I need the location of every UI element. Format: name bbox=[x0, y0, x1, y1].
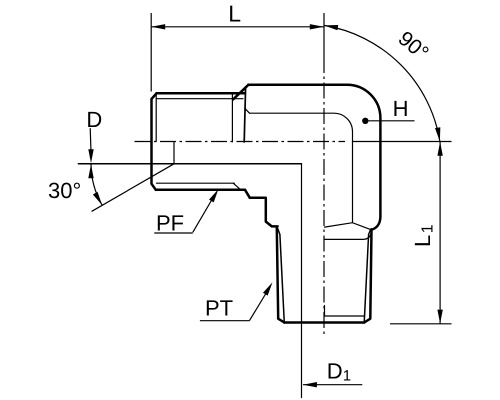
arrow 30deg arc end bbox=[93, 192, 105, 207]
gauge projection vertical bbox=[173, 142, 175, 164]
hex facet notch bbox=[245, 108, 250, 113]
L1 extension line bottom bbox=[390, 323, 452, 325]
PT label underline bbox=[200, 320, 250, 322]
L dimension line bbox=[151, 26, 324, 28]
PT bottom chamfer boundary line bbox=[325, 306, 365, 317]
svg-text:PF: PF bbox=[156, 210, 184, 235]
arrow PT leader bbox=[263, 281, 275, 296]
arrow L1 top bbox=[437, 142, 442, 156]
PF thread minor line bottom bbox=[157, 182, 235, 184]
PF chamfer circle line bbox=[155, 94, 157, 141]
PF thread left face with chamfers bbox=[152, 93, 157, 190]
PF label underline bbox=[154, 232, 193, 234]
arrow 30deg arc up bbox=[88, 164, 93, 178]
PT thread root line left bbox=[278, 229, 284, 321]
L1 dimension line bbox=[439, 142, 441, 324]
body bottom step to vertical arm bbox=[250, 198, 278, 227]
hex bottom chamfer boundary diagonal bbox=[233, 183, 239, 189]
D1 dimension line bbox=[303, 384, 362, 386]
L1 extension line top solid bbox=[353, 141, 452, 143]
D leader line bbox=[89, 128, 92, 151]
svg-text:L: L bbox=[228, 0, 241, 26]
arrow L left bbox=[151, 24, 165, 29]
PT thread right edge tapered bbox=[364, 229, 371, 322]
thin detail lines bbox=[78, 94, 371, 398]
hex bottom chamfer diagonal bbox=[245, 190, 250, 198]
svg-text:PT: PT bbox=[205, 295, 233, 320]
L extension line left bbox=[150, 13, 152, 92]
H leader line bbox=[368, 120, 414, 122]
hex top chamfer diagonal bbox=[233, 85, 248, 100]
PF thread end vertical bbox=[231, 94, 233, 142]
body top edge and outer elbow arc and right edge bbox=[248, 85, 380, 230]
arrowheads bbox=[88, 23, 443, 388]
svg-text:30°: 30° bbox=[48, 178, 81, 203]
PT thread left edge tapered bbox=[277, 228, 285, 322]
arrow D1 left bbox=[303, 382, 317, 387]
hex facet line and inner elbow arc bbox=[250, 113, 353, 222]
arrow 90deg arc bottom bbox=[435, 127, 443, 142]
H leader dot bbox=[362, 118, 368, 124]
90 degree dimension arc bbox=[324, 25, 440, 141]
dimension lines bbox=[90, 13, 451, 385]
PT leader line bbox=[249, 287, 269, 321]
PT thread root line right bbox=[364, 230, 370, 321]
svg-text:D: D bbox=[86, 107, 102, 132]
30 degree dimension arc bbox=[91, 164, 102, 206]
PF leader line bbox=[193, 194, 216, 233]
centerline vertical dashed bbox=[323, 57, 325, 334]
hex boss bottom facets bbox=[325, 223, 372, 230]
PT thread start line bbox=[324, 234, 371, 240]
30 degree chamfer line bbox=[92, 164, 174, 211]
body inner edge vertical D1 extension bbox=[301, 164, 303, 398]
arrow 90deg arc top bbox=[324, 23, 339, 31]
centerline horizontal bbox=[135, 141, 346, 143]
arrow D down bbox=[88, 149, 93, 163]
PF thread bottom edge bbox=[156, 189, 245, 192]
PF thread top edge bbox=[157, 92, 245, 95]
PT thread bottom edge bbox=[284, 321, 364, 324]
svg-text:H: H bbox=[393, 96, 409, 121]
fitting outline thick bbox=[152, 85, 381, 323]
gauge line for D dimension bbox=[78, 163, 301, 165]
centerline vertical solid top bbox=[323, 13, 325, 57]
arrow L1 bottom bbox=[437, 310, 442, 324]
PF thread minor line top bbox=[157, 98, 244, 100]
hex corner vertical bbox=[244, 87, 245, 142]
arrow PF leader bbox=[209, 188, 221, 203]
arrow L right bbox=[310, 24, 324, 29]
